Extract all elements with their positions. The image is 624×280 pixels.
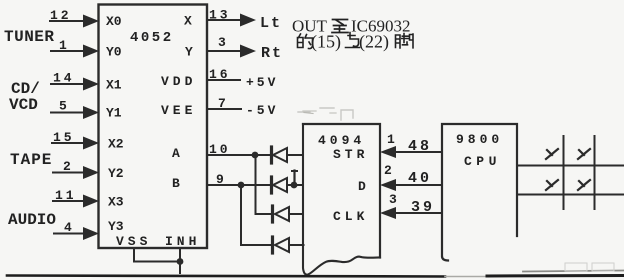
pin number 11 <box>55 188 77 203</box>
svg-text:40: 40 <box>408 170 432 187</box>
U1 pin label A <box>172 146 180 161</box>
key switch S1 <box>546 149 558 159</box>
wire: CPU pin 40 to U2 D (pin 2) <box>380 179 441 191</box>
svg-text:Lt: Lt <box>260 15 282 32</box>
key switch S2 <box>578 149 590 159</box>
IC U2 4094 body (torn bottom) <box>303 124 380 275</box>
pin number 3 <box>389 192 397 207</box>
svg-text:CPU: CPU <box>464 154 501 169</box>
pin number 1 <box>59 38 67 53</box>
wire: input to U1 pin 4 (Y3) <box>54 227 99 240</box>
wire: U1 pin 10 output A <box>207 154 270 156</box>
net label TAPE <box>10 151 52 169</box>
svg-text:Y0: Y0 <box>106 45 122 60</box>
pin number 2 <box>384 163 392 178</box>
svg-text:AUDIO: AUDIO <box>8 211 56 229</box>
wire: input to U1 pin 12 (X0) <box>50 15 99 28</box>
pin number 12 <box>50 8 72 23</box>
U1 pin label X1 <box>106 78 122 93</box>
pin number 9 <box>216 172 224 187</box>
pin number 13 <box>209 8 231 23</box>
svg-text:16: 16 <box>209 67 231 82</box>
svg-text:-5V: -5V <box>246 103 278 118</box>
U1 pin label X0 <box>106 14 122 29</box>
svg-text:X0: X0 <box>106 14 122 29</box>
U1 pin label Y <box>185 45 193 60</box>
U2 pin label D <box>358 179 366 194</box>
junction node on B <box>238 182 245 189</box>
svg-text:D: D <box>358 179 366 194</box>
IC U1 4052 body <box>99 5 208 249</box>
svg-text:11: 11 <box>55 188 77 203</box>
svg-text:4052: 4052 <box>130 30 174 46</box>
svg-text:STR: STR <box>333 147 368 162</box>
svg-text:9800: 9800 <box>456 132 503 147</box>
svg-text:39: 39 <box>411 199 435 216</box>
wire: CPU pin 39 to U2 CLK (pin 3) <box>380 207 442 219</box>
wire: input to U1 pin 1 (Y0) <box>51 45 99 58</box>
pin number 3 <box>218 35 226 50</box>
svg-text:10: 10 <box>209 142 231 157</box>
U1 pin label VSS <box>116 234 151 249</box>
faint smudge near -5V <box>303 111 336 113</box>
net label CD/VCD <box>9 80 40 114</box>
wire: U1 pin 16 VDD stub <box>207 79 240 81</box>
U1 pin label B <box>172 176 180 191</box>
U1 pin label Y2 <box>108 166 124 181</box>
annotation: OUT to IC69032 line 1 <box>292 17 411 36</box>
svg-text:2: 2 <box>384 163 392 178</box>
faint print artifacts bottom right <box>565 263 614 271</box>
pin number 48 <box>408 138 432 155</box>
wire: CPU pin 48 to U2 STR (pin 1) <box>380 146 441 158</box>
key switch S4 <box>578 180 590 190</box>
svg-text:3: 3 <box>389 192 397 207</box>
key matrix column wire 1 <box>563 136 565 209</box>
svg-text:+5V: +5V <box>246 75 278 90</box>
wire: U1 pin 9 output B <box>207 184 270 186</box>
wire stub above D2 junction <box>292 171 297 186</box>
power label +5V <box>246 75 278 90</box>
svg-text:1: 1 <box>59 38 67 53</box>
pin number 5 <box>59 99 67 114</box>
svg-text:13: 13 <box>209 8 231 23</box>
diode D2 (B to D) <box>272 177 304 193</box>
svg-text:7: 7 <box>218 96 226 111</box>
svg-text:14: 14 <box>53 71 75 86</box>
svg-text:4: 4 <box>64 220 72 235</box>
svg-text:48: 48 <box>408 138 432 155</box>
svg-text:Y2: Y2 <box>108 166 124 181</box>
U1 pin label VDD <box>161 74 196 89</box>
wire: input to U1 pin 15 (X2) <box>52 137 99 150</box>
svg-text:4094: 4094 <box>318 133 365 148</box>
pin number 7 <box>218 96 226 111</box>
U2 pin label CLK <box>333 209 368 224</box>
diode D3 (A branch to CLK) <box>273 206 304 222</box>
wire: input to U1 pin 14 (X1) <box>51 78 99 91</box>
U3 label CPU <box>464 154 501 169</box>
svg-text:B: B <box>172 176 180 191</box>
wire: input to U1 pin 11 (X3) <box>53 195 99 208</box>
junction node on A <box>252 152 259 159</box>
junction node VSS/INH <box>177 258 184 265</box>
svg-text:5: 5 <box>59 99 67 114</box>
U1 pin label INH <box>165 234 200 249</box>
svg-text:X2: X2 <box>108 137 124 152</box>
svg-text:X3: X3 <box>108 195 124 210</box>
svg-text:Y3: Y3 <box>108 219 124 234</box>
U1 value label 4052 <box>130 30 174 46</box>
U2 value label 4094 <box>318 133 365 148</box>
U1 pin label X <box>184 14 192 29</box>
wire: INH down to ground rail <box>179 248 181 273</box>
svg-text:VEE: VEE <box>161 103 196 118</box>
key switch S3 <box>546 180 558 190</box>
pin number 10 <box>209 142 231 157</box>
diode D4 (B branch) <box>273 237 304 253</box>
svg-text:2: 2 <box>63 159 71 174</box>
svg-text:12: 12 <box>50 8 72 23</box>
key matrix column wire 2 <box>594 136 596 209</box>
wire: input to U1 pin 2 (Y2) <box>53 166 99 179</box>
svg-text:15: 15 <box>53 130 75 145</box>
svg-text:X1: X1 <box>106 78 122 93</box>
key matrix row wire 2 <box>519 194 624 196</box>
pin number 14 <box>53 71 75 86</box>
ground rail (page rule) <box>7 271 624 277</box>
U1 pin label Y3 <box>108 219 124 234</box>
pin number 15 <box>53 130 75 145</box>
svg-text:3: 3 <box>218 35 226 50</box>
svg-text:(15): (15) <box>311 32 341 53</box>
annotation: (15) and (22) pin line 2 <box>298 32 414 53</box>
svg-text:Rt: Rt <box>261 45 283 62</box>
U1 pin label X3 <box>108 195 124 210</box>
svg-text:(22): (22) <box>359 32 389 53</box>
diode D1 (A to STR) <box>272 147 304 163</box>
power label -5V <box>246 103 278 118</box>
svg-text:A: A <box>172 146 180 161</box>
svg-text:TUNER: TUNER <box>4 28 55 46</box>
wire: A branch down to D3 <box>256 155 271 214</box>
svg-text:CLK: CLK <box>333 209 368 224</box>
svg-text:INH: INH <box>165 234 200 249</box>
pin number 2 <box>63 159 71 174</box>
U3 value label 9800 <box>456 132 503 147</box>
net label Rt <box>261 45 283 62</box>
svg-text:VDD: VDD <box>161 74 196 89</box>
IC U3 9800 CPU body (open bottom) <box>442 124 517 261</box>
pin number 4 <box>64 220 72 235</box>
net label Lt <box>260 15 282 32</box>
U1 pin label Y0 <box>106 45 122 60</box>
pin number 40 <box>408 170 432 187</box>
svg-text:9: 9 <box>216 172 224 187</box>
pin number 39 <box>411 199 435 216</box>
wire: B branch down to D4 <box>241 185 270 245</box>
svg-text:TAPE: TAPE <box>10 151 52 169</box>
key matrix row wire 1 <box>517 165 624 167</box>
wire: VSS to INH bracket below U1 <box>134 248 180 262</box>
wire: input to U1 pin 5 (Y1) <box>51 106 99 119</box>
net label AUDIO <box>8 211 56 229</box>
faint print artifacts above U2 <box>298 108 353 120</box>
svg-text:Y: Y <box>185 45 193 60</box>
wire: U1 pin 13 X output to Lt <box>207 14 256 27</box>
svg-text:1: 1 <box>387 132 395 147</box>
wire: U1 pin 7 VEE stub <box>207 108 241 110</box>
net label TUNER <box>4 28 55 46</box>
U1 pin label Y1 <box>106 106 122 121</box>
U2 pin label STR <box>333 147 368 162</box>
U1 pin label X2 <box>108 137 124 152</box>
svg-text:VSS: VSS <box>116 234 151 249</box>
U1 pin label VEE <box>161 103 196 118</box>
svg-text:Y1: Y1 <box>106 106 122 121</box>
pin number 16 <box>209 67 231 82</box>
wire: U1 pin 3 Y output to Rt <box>207 45 256 58</box>
svg-text:VCD: VCD <box>9 96 38 114</box>
junction node after D2 <box>291 182 298 189</box>
svg-text:X: X <box>184 14 192 29</box>
pin number 1 <box>387 132 395 147</box>
